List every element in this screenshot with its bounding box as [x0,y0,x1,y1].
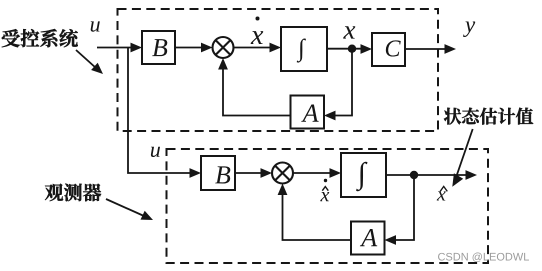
label 受控系统 (controlled system) [2,29,78,47]
block B2 [201,156,235,190]
label 状态估计值 (state estimate) [444,108,533,125]
block A2 [351,222,385,255]
summing junction S1 [213,37,234,58]
wire A1 to S1 (up into summing junction) [223,69,291,116]
wire S2 to integrator 2, label xhat-dot [293,172,330,174]
watermark CSDN @LEODWL [438,253,529,262]
feedback wire node xhat down to A2 [396,175,415,240]
wire u branch down to observer input [128,48,190,174]
node x (junction dot) [348,45,356,53]
label u (top input) [91,21,100,31]
wire integrator1 to C with node x [327,48,361,50]
node xhat (junction dot) [410,171,418,179]
annotation arrow to observer [106,199,144,216]
wire u input to B1 [97,47,131,49]
wire integrator2 to xhat output with node [386,174,466,176]
wire B1 to summing junction S1 [175,47,202,49]
block B1 [142,31,175,64]
feedback wire node x down to A1 [335,49,352,116]
wire C to output y [405,48,445,50]
wire B2 to summing junction S2 [235,172,261,174]
label u (observer input) [151,147,160,157]
wire A2 to S2 (up into summing junction) [283,195,352,241]
annotation arrow to controlled system [76,50,96,68]
dashed box: controlled system boundary [118,9,439,131]
annotation arrow to state estimate [457,129,473,176]
block C [372,33,405,66]
label xhat-dot [320,192,329,201]
integrator block 1 [281,27,327,71]
label xdot [251,31,264,44]
label y [463,21,475,37]
wire S1 to integrator 1, label xdot [234,47,271,49]
label 观测器 (observer) [45,184,101,202]
block A1 [291,96,325,129]
integrator block 2 [341,153,386,197]
label xhat output [437,191,446,200]
label x [343,26,355,38]
dashed box: observer boundary [167,149,489,263]
summing junction S2 [272,163,293,184]
